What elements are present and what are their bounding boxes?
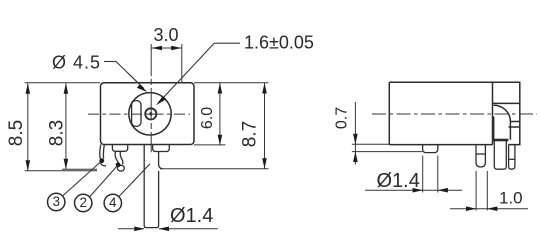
svg-text:8.7: 8.7	[239, 121, 260, 147]
svg-text:Ø1.4: Ø1.4	[377, 170, 420, 192]
circled pin number 2	[75, 194, 92, 211]
rear pin step line	[509, 158, 515, 160]
dim 0.7 top extension	[352, 143, 389, 145]
svg-text:3.0: 3.0	[154, 25, 179, 45]
dim D1.4 (left view)	[118, 228, 218, 230]
center pin side view	[494, 141, 506, 169]
D1.4 right arrows	[413, 188, 423, 193]
6.0 arrows	[218, 83, 223, 94]
1.0 arrows	[466, 206, 476, 211]
svg-text:2: 2	[79, 195, 87, 210]
leader for D4.5	[104, 62, 144, 89]
0.7 arrows (outside pointing in)	[353, 134, 358, 145]
svg-text:4: 4	[109, 195, 117, 210]
D4.5 leader arrowhead	[137, 84, 147, 92]
dim D1.4 right view extensions	[422, 156, 424, 193]
mounting tab right under body	[153, 145, 170, 152]
horizontal centerline of barrel	[88, 113, 190, 115]
dim 8.3 line	[65, 84, 67, 170]
barrel mouth arc	[494, 105, 511, 121]
8.7 arrows	[262, 83, 267, 94]
dim 0.7 bottom extension	[352, 151, 423, 153]
top extension line (left of body)	[25, 82, 100, 84]
top extension line (right of body)	[194, 82, 269, 84]
dim 8.7 line	[264, 83, 266, 168]
svg-text:8.3: 8.3	[47, 120, 68, 146]
side contact seen through barrel	[132, 101, 141, 127]
svg-text:6.0: 6.0	[199, 107, 216, 129]
bent side pin 2 (hook)	[115, 151, 124, 171]
barrel front thick edge	[492, 117, 494, 141]
3.0 arrows	[152, 46, 162, 51]
shroud step line 2	[509, 126, 520, 128]
arrowheads left view dimensions	[26, 46, 267, 171]
barrel mouth vertical	[509, 121, 511, 140]
dim 1.0 line	[450, 208, 528, 210]
side pin front (bent contact)	[476, 145, 485, 167]
mounting tab left under body	[112, 145, 127, 152]
dim 8.3 bottom extension	[62, 168, 97, 170]
rear pin side view	[509, 145, 515, 170]
side pin front step line	[476, 153, 485, 155]
center terminal lug right edge	[159, 152, 163, 169]
svg-text:3: 3	[52, 194, 60, 209]
dim 3.0 line	[151, 47, 181, 49]
dim 3.0 right extension	[181, 44, 183, 83]
dim D1.4 right view line	[365, 189, 462, 191]
8.5 arrows	[26, 83, 31, 94]
pin 3 leader dot	[99, 158, 104, 163]
dim 0.7 line	[354, 102, 356, 165]
side view body outline	[389, 82, 492, 144]
svg-text:Ø 4.5: Ø 4.5	[52, 53, 101, 73]
dim 1.0 extensions	[475, 171, 477, 211]
circled pin number 3	[48, 193, 65, 210]
leader pin 3	[63, 162, 102, 197]
dim 8.5 line	[27, 84, 29, 171]
pin 2 tip loop	[118, 165, 125, 171]
1.6 leader arrowhead	[156, 96, 166, 105]
bent side pin 3 (hook)	[100, 145, 106, 166]
tab under side body	[423, 145, 438, 153]
8.3 arrows	[64, 83, 69, 94]
dim 8.5 bottom extension	[25, 170, 97, 172]
arrowheads right view dimensions	[353, 134, 497, 211]
shroud inner top line	[493, 102, 520, 104]
circled pin number 4	[104, 194, 121, 211]
terminal lug bottom edge / 8.7 bottom extension line	[160, 168, 269, 170]
side view centerline	[372, 113, 537, 115]
svg-text:1.6±0.05: 1.6±0.05	[244, 33, 314, 53]
center pin collar circle	[145, 108, 156, 119]
leader pin 4	[119, 164, 150, 197]
svg-text:0.7: 0.7	[334, 107, 351, 129]
leader pin 2	[90, 166, 118, 198]
dim 6.0 line	[219, 83, 221, 145]
pin 2 leader dot	[116, 162, 121, 167]
dim 6.0 bottom extension	[194, 144, 226, 146]
vertical centerline of barrel	[150, 44, 152, 152]
shroud step line 1	[510, 121, 519, 123]
barrel bottom thick line	[493, 139, 509, 142]
front view body outline	[101, 83, 195, 145]
svg-text:8.5: 8.5	[6, 120, 27, 146]
svg-text:1.0: 1.0	[499, 189, 523, 208]
center terminal pin (long PCB pin)	[144, 145, 158, 228]
center pin tip dot	[149, 112, 152, 115]
barrel shroud right section	[389, 82, 520, 144]
leader for 1.6	[159, 43, 241, 102]
barrel outer circle D4.5	[129, 93, 171, 135]
svg-text:Ø1.4: Ø1.4	[170, 205, 213, 227]
